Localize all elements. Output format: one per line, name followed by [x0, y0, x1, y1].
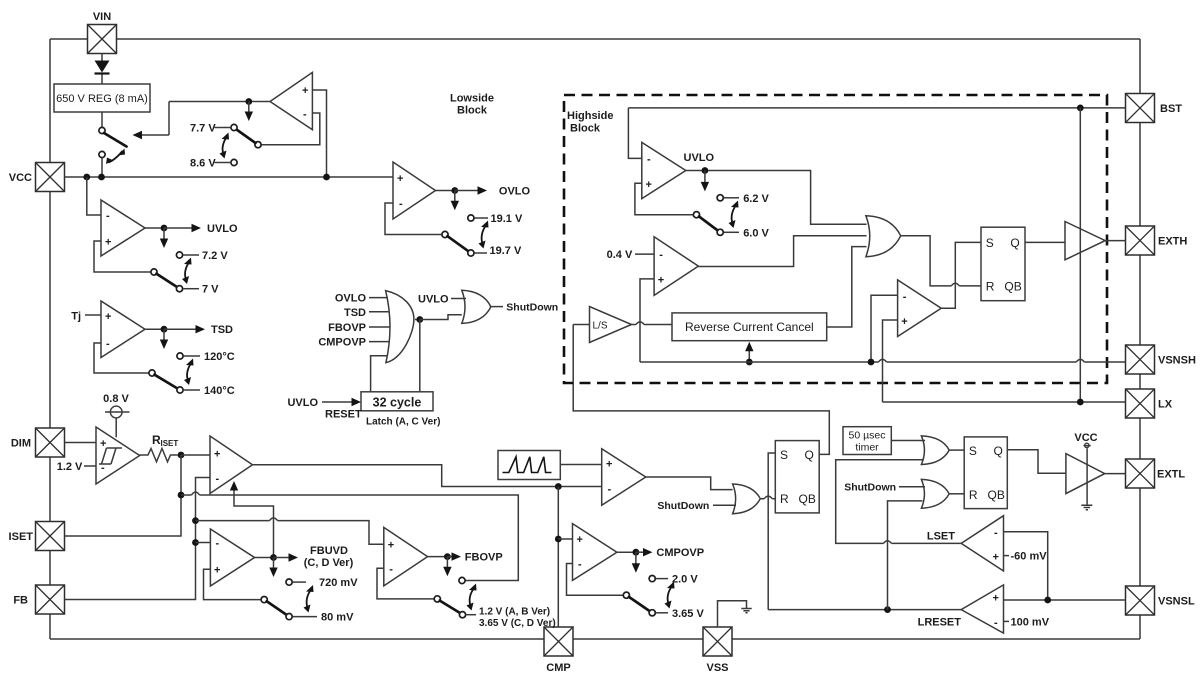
wire LRESET line to FF1 S input [768, 453, 775, 610]
OR gate G4 (EXTL set OR) [921, 436, 949, 465]
svg-text:140°C: 140°C [204, 385, 235, 397]
switch SW9 (6.2V/6.0V select) [693, 201, 738, 236]
FBOVP output wire and node [428, 556, 448, 558]
svg-text:VCC: VCC [1074, 432, 1097, 444]
svg-text:VCC: VCC [9, 172, 32, 184]
svg-text:+: + [214, 564, 220, 576]
svg-text:80 mV: 80 mV [321, 612, 354, 624]
chip outline left border [49, 39, 51, 639]
svg-text:EXTL: EXTL [1157, 469, 1185, 481]
comparator U9 (FBOVP) [384, 527, 428, 586]
svg-text:+: + [577, 534, 583, 546]
svg-text:S: S [780, 448, 788, 462]
wire comparator output to SW1 control [169, 102, 270, 136]
svg-text:1.2 V: 1.2 V [57, 461, 83, 473]
comparator U14 (highside UVLO) [642, 142, 686, 198]
wire U12 output to FF1 S line [768, 609, 961, 611]
svg-text:8.6 V: 8.6 V [190, 158, 216, 170]
wire G6 output to FF3 R (hop over S wire) [901, 236, 981, 286]
switch SW2 (7.7V/8.6V select) [220, 124, 262, 165]
svg-text:-: - [106, 338, 110, 350]
resistor RISET [140, 433, 179, 462]
svg-text:-: - [216, 538, 220, 550]
wire U1 + input to VCC bus [312, 90, 326, 177]
wire L/S output to RCC block (hop over VSNSH branch) [632, 324, 673, 326]
chip outline bottom border [50, 638, 1140, 640]
current source 0.8 V [103, 393, 129, 437]
wire U16 - input to VSNSH line [871, 295, 898, 362]
driver U13 (EXTL buffer) [1066, 454, 1105, 494]
level shifter L/S [590, 307, 632, 343]
U12 + input wire to VSNSL pad [1004, 599, 1126, 601]
pad VSNSL [1126, 586, 1155, 615]
svg-text:2.0 V: 2.0 V [672, 574, 698, 586]
svg-text:ShutDown: ShutDown [844, 482, 896, 494]
wire U14 + feedback to switch SW9 [635, 183, 694, 214]
node VCC bus junctions [83, 174, 90, 181]
wire U6 - input to FB line [65, 478, 211, 600]
wire VSS pad to ground [718, 601, 747, 627]
svg-text:120°C: 120°C [204, 351, 235, 363]
chip outline top border [50, 38, 1140, 40]
svg-text:6.2 V: 6.2 V [743, 193, 769, 205]
svg-text:-: - [106, 210, 110, 222]
svg-text:CMPOVP: CMPOVP [656, 547, 704, 559]
OR gate G2 (shutdown OR) [462, 290, 491, 323]
svg-text:CMP: CMP [546, 662, 570, 674]
node G1 output [415, 319, 420, 321]
wire G3 output to SR1 R with hop [760, 498, 775, 500]
node BST junction [1077, 105, 1084, 112]
switch SW5 (19.1V/19.7V select) [442, 221, 489, 257]
value label 140 C [184, 389, 200, 391]
comparator U3 (thermal TSD) [101, 301, 145, 358]
wire G1 output down to latch [419, 320, 421, 392]
node VSNSL junction [1044, 597, 1051, 604]
op-amp U1 (VCC monitor, left-pointing) [270, 72, 312, 129]
arrow down from CMPOVP node [635, 552, 637, 568]
wire U13 to EXTL pad [1105, 473, 1126, 475]
switch SW7 (1.2V/3.65V select) [434, 577, 476, 617]
wire DIM pad to U5 + input [65, 442, 97, 444]
VCC supply symbol [1074, 432, 1097, 448]
svg-text:-: - [303, 109, 307, 121]
pad FB [36, 585, 65, 614]
chip outline right border [1139, 39, 1141, 639]
svg-text:ShutDown: ShutDown [506, 302, 558, 314]
wire REG to switch [101, 112, 103, 127]
wire FB node to U9 + input [196, 521, 384, 545]
svg-text:TSD: TSD [211, 324, 233, 336]
OR gate G5 (EXTL reset OR) [921, 479, 949, 508]
error amp U6 (PWM error comparator) [210, 436, 253, 494]
driver U17 (EXTH buffer) [1065, 222, 1105, 260]
wire U17 to EXTH pad [1105, 240, 1125, 242]
svg-text:FB: FB [13, 595, 28, 607]
node ISET branch [178, 492, 185, 499]
svg-text:100 mV: 100 mV [1011, 616, 1050, 628]
UVLO output wire and node [145, 227, 164, 229]
svg-text:Latch (A, C Ver): Latch (A, C Ver) [366, 417, 440, 428]
control arrow into SW1 [137, 134, 169, 136]
svg-text:OVLO: OVLO [335, 293, 367, 305]
svg-text:ShutDown: ShutDown [657, 500, 709, 512]
wire RISET node down to ISET pad [65, 455, 181, 536]
switch SW1 (regulator enable) [99, 127, 127, 164]
svg-text:Block: Block [457, 105, 488, 117]
FBUVD output wire and node [255, 557, 274, 559]
arrow down to threshold switch [248, 102, 250, 117]
svg-text:QB: QB [799, 492, 816, 506]
svg-text:32 cycle: 32 cycle [373, 395, 422, 409]
svg-text:+: + [901, 316, 907, 328]
svg-text:UVLO: UVLO [684, 152, 715, 164]
svg-text:19.1 V: 19.1 V [491, 213, 523, 225]
svg-text:+: + [100, 438, 106, 450]
svg-text:+: + [993, 593, 999, 605]
wire VCC bus to U2 - input [87, 177, 101, 215]
svg-text:+: + [397, 173, 403, 185]
svg-text:-: - [647, 153, 651, 165]
pad VCC [36, 163, 65, 192]
wire FB node to U8 - input [196, 542, 211, 544]
svg-text:6.0 V: 6.0 V [743, 227, 769, 239]
wire ramp to PWM comparator + input [560, 464, 601, 466]
node CMP junction [555, 483, 562, 490]
svg-text:-: - [608, 484, 612, 496]
flip-flop FF2 (EXTL SR latch) [964, 437, 1007, 509]
value label 19.1 V [468, 215, 474, 221]
wire G1 output to G2 [420, 315, 462, 320]
svg-text:+: + [658, 274, 664, 286]
svg-text:-: - [578, 559, 582, 571]
svg-text:-: - [659, 249, 663, 261]
wire CMP node to U10 + input [558, 538, 572, 540]
wire U3 - feedback to switch SW4 [94, 343, 149, 373]
svg-text:0.8 V: 0.8 V [103, 393, 129, 405]
value label 8.6 V [215, 162, 232, 164]
wire FF1 Q to highside level shifter [573, 325, 829, 455]
latch block 32 cycle [361, 392, 433, 411]
svg-text:7.7 V: 7.7 V [190, 123, 216, 135]
regulator block 650 V REG (8 mA) [54, 84, 150, 112]
VCC bus wire [65, 176, 394, 178]
slope compensation arrow into U6 [234, 486, 274, 558]
arrow down from UVLO node [163, 228, 165, 243]
wire VSNSH line [640, 361, 1126, 363]
comparator U2 (UVLO lowside) [101, 200, 145, 256]
comparator U4 (OVLO) [393, 162, 436, 219]
U12 - input stub, value 100 mV [1004, 620, 1010, 622]
comparator U12 (LRESET, left-pointing) [961, 585, 1003, 633]
node VSNSH junction [868, 359, 875, 366]
svg-text:+: + [105, 311, 111, 323]
svg-text:FBOVP: FBOVP [328, 322, 366, 334]
svg-text:Block: Block [570, 123, 601, 135]
OR gate G6 (highside OR) [866, 216, 901, 257]
value label 3.65 V [656, 612, 668, 614]
svg-text:+: + [214, 449, 220, 461]
pad CMP [544, 627, 573, 656]
svg-text:-: - [994, 617, 998, 629]
switch SW3 (7.2V/7V select) [151, 258, 192, 292]
pad BST [1126, 94, 1155, 123]
wire VCC through driver to ground [1086, 448, 1088, 505]
svg-text:Tj: Tj [71, 311, 81, 323]
wire BST rail [628, 107, 1125, 109]
wire U9 - feedback to switch SW7 [377, 568, 434, 599]
svg-text:LSET: LSET [927, 531, 955, 543]
ShutDown output label [490, 306, 503, 308]
wire timer to G4 [891, 440, 925, 442]
wire U15 + input down to VSNSH line [640, 279, 654, 362]
switch SW4 (120C/140C select) [149, 359, 194, 394]
OVLO output wire and node [436, 190, 455, 192]
pad VSS [703, 627, 732, 656]
svg-text:3.65 V: 3.65 V [672, 608, 704, 620]
value label 7 V [183, 288, 199, 290]
svg-text:+: + [606, 459, 612, 471]
value label 2.0 V [649, 576, 655, 582]
svg-text:R: R [969, 488, 978, 502]
comparator U16 (reverse current) [898, 280, 942, 337]
U11 - input wire to VSNSL [1004, 532, 1048, 600]
svg-text:7.2 V: 7.2 V [202, 250, 228, 262]
wire U2 + feedback to switch SW3 [94, 241, 151, 272]
comparator U5 (DIM input, hysteresis) [96, 427, 140, 484]
node on comparator output [245, 98, 252, 105]
svg-text:TSD: TSD [344, 307, 366, 319]
U11 + input stub, value -60 mV [1004, 555, 1010, 557]
svg-text:VIN: VIN [93, 11, 111, 23]
wire L/S input [573, 324, 589, 326]
svg-text:-60 mV: -60 mV [1011, 551, 1048, 563]
arrow down from UVLO node [704, 171, 706, 187]
svg-text:+: + [993, 552, 999, 564]
svg-text:ISET: ISET [9, 531, 34, 543]
svg-text:+: + [105, 237, 111, 249]
timer block 50 usec [843, 427, 891, 455]
wire U16 + input to LX line [883, 320, 898, 402]
wire G4 output to FF2 S [949, 449, 964, 451]
Highside Block dashed border [564, 95, 1107, 383]
svg-text:VSNSL: VSNSL [1158, 596, 1195, 608]
svg-text:timer: timer [855, 442, 879, 454]
svg-text:UVLO: UVLO [207, 223, 238, 235]
wire U14 output to OR G6 [686, 171, 867, 225]
svg-text:LRESET: LRESET [918, 617, 962, 629]
svg-text:R: R [780, 492, 789, 506]
svg-text:Reverse Current Cancel: Reverse Current Cancel [685, 320, 814, 334]
value label 120 C [177, 353, 183, 359]
node LRESET to OR G5 branch [884, 606, 891, 613]
svg-text:-: - [994, 527, 998, 539]
svg-text:QB: QB [988, 488, 1005, 502]
svg-text:EXTH: EXTH [1158, 236, 1187, 248]
svg-text:(C, D Ver): (C, D Ver) [304, 557, 354, 569]
svg-text:Q: Q [994, 444, 1003, 458]
wire LX line [883, 401, 1126, 403]
svg-text:-: - [399, 198, 403, 210]
svg-text:7 V: 7 V [202, 284, 219, 296]
wire hop over FB line [192, 492, 200, 495]
value label 1.2 V (A, B Ver) / 3.65 V (C, D Ver) [466, 614, 476, 616]
pad VSNSH [1126, 345, 1155, 374]
svg-text:RESET: RESET [325, 409, 362, 421]
wire U1 - input to threshold switch SW2 [262, 113, 320, 145]
wire ISET node to FBOVP threshold loop [181, 495, 518, 581]
svg-text:DIM: DIM [11, 438, 31, 450]
svg-text:VSNSH: VSNSH [1158, 355, 1196, 367]
comparator U8 (FBUVD) [210, 529, 254, 586]
node RISET output [178, 452, 185, 459]
wire switch to VCC bus [101, 158, 103, 177]
svg-text:+: + [302, 85, 308, 97]
CMPOVP output wire and node [617, 551, 636, 553]
pad EXTH [1126, 226, 1155, 255]
svg-text:720 mV: 720 mV [319, 577, 358, 589]
svg-text:LX: LX [1158, 399, 1173, 411]
wire U6 output to PWM comparator - input [253, 465, 602, 487]
node CMPOVP branch [555, 536, 562, 543]
arrow down from OVLO node [454, 191, 456, 206]
svg-text:CMPOVP: CMPOVP [318, 337, 366, 349]
svg-text:-: - [389, 563, 393, 575]
ramp generator block [498, 451, 560, 480]
wire FF2 Q to EXTL driver [1007, 450, 1066, 474]
wire U11 output to OR G4 (with hop over LRESET vertical) [836, 460, 962, 544]
svg-text:Lowside: Lowside [450, 93, 494, 105]
pad EXTL [1126, 459, 1155, 488]
wire U10 - feedback to switch SW8 [567, 564, 624, 596]
arrow down from FBOVP node [446, 557, 448, 572]
comparator U7 (PWM) [602, 449, 646, 505]
flip-flop FF1 (lowside SR latch) [775, 441, 819, 513]
switch SW8 (2.0V/3.65V select) [623, 582, 674, 616]
svg-text:OVLO: OVLO [499, 186, 531, 198]
value label 7.7 V [215, 127, 232, 129]
svg-text:Highside: Highside [567, 110, 613, 122]
svg-text:UVLO: UVLO [287, 397, 318, 409]
svg-text:VSS: VSS [706, 662, 728, 674]
pad LX [1126, 389, 1155, 418]
wire CMP node down to CMP pad [557, 487, 559, 628]
arrow down from TSD node [163, 329, 165, 344]
OR gate G3 (PWM reset OR) [733, 484, 761, 514]
flip-flop FF3 (highside SR latch) [981, 227, 1025, 301]
pad VIN [88, 25, 117, 54]
svg-text:QB: QB [1004, 280, 1021, 294]
wire U15 output to OR G6 [698, 236, 866, 267]
OR gate G1 (fault OR: OVLO/TSD/FBOVP/CMPOVP) [386, 291, 414, 363]
diode D1 (from VIN) [95, 54, 110, 85]
wire U7 output to OR G3 [646, 477, 733, 490]
comparator U11 (LSET, left-pointing) [961, 516, 1003, 571]
svg-text:S: S [986, 236, 994, 250]
svg-text:S: S [969, 444, 977, 458]
arrow up into RCC from VSNSH line [748, 347, 750, 363]
wire RISET node to error amp + input [181, 454, 210, 456]
value label 19.7 V [474, 252, 487, 254]
svg-text:FBUVD: FBUVD [310, 545, 348, 557]
wire BST rail to U14 - input [628, 108, 641, 158]
ground (driver) [1081, 505, 1092, 510]
comparator U15 (0.4 V highside) [654, 237, 698, 296]
svg-text:L/S: L/S [593, 321, 608, 332]
svg-text:BST: BST [1160, 103, 1182, 115]
svg-text:-: - [903, 291, 907, 303]
value label 6.0 V [724, 231, 739, 233]
pad ISET [36, 522, 65, 551]
svg-text:Q: Q [805, 448, 814, 462]
wire U8 + feedback to switch SW6 [204, 569, 262, 599]
wire latch to G1 fifth input [371, 356, 387, 392]
svg-text:50 µsec: 50 µsec [849, 430, 886, 442]
node LX junction [1077, 399, 1084, 406]
svg-text:650 V REG (8 mA): 650 V REG (8 mA) [56, 93, 148, 105]
ground (VSS) [741, 609, 751, 613]
value label 6.2 V [717, 195, 723, 201]
comparator U10 (CMPOVP) [573, 524, 617, 581]
wire BST node down to LX line [1079, 108, 1081, 402]
svg-text:FBOVP: FBOVP [465, 552, 503, 564]
switch SW6 (720mV/80mV select) [261, 585, 313, 620]
wire U16 output to FF3 S [941, 242, 981, 308]
svg-text:+: + [388, 539, 394, 551]
svg-text:1.2 V (A, B Ver): 1.2 V (A, B Ver) [479, 606, 550, 617]
svg-text:19.7 V: 19.7 V [490, 245, 522, 257]
svg-text:UVLO: UVLO [418, 294, 449, 306]
arrow down from FBUVD node [273, 558, 275, 573]
node FB branches [192, 517, 199, 524]
svg-text:+: + [646, 179, 652, 191]
wire RCC output to OR G6 [827, 247, 867, 327]
block Reverse Current Cancel [672, 313, 827, 341]
wire G5 output to FF2 R [949, 493, 964, 495]
pad DIM [36, 428, 65, 457]
value label 7.2 V [176, 252, 182, 258]
svg-text:0.4 V: 0.4 V [607, 249, 633, 261]
svg-text:R: R [986, 280, 995, 294]
svg-text:3.65 V (C, D Ver): 3.65 V (C, D Ver) [479, 618, 556, 629]
svg-text:Q: Q [1010, 236, 1019, 250]
TSD output wire and node [145, 328, 164, 330]
svg-text:-: - [216, 473, 220, 485]
wire FF3 Q to EXTH driver [1025, 241, 1065, 243]
node UVLO output [702, 167, 709, 174]
value label 720 mV [286, 579, 292, 585]
wire U4 - feedback to switch SW5 [385, 203, 442, 235]
value label 80 mV [293, 616, 317, 618]
svg-text:ISET: ISET [161, 439, 179, 448]
